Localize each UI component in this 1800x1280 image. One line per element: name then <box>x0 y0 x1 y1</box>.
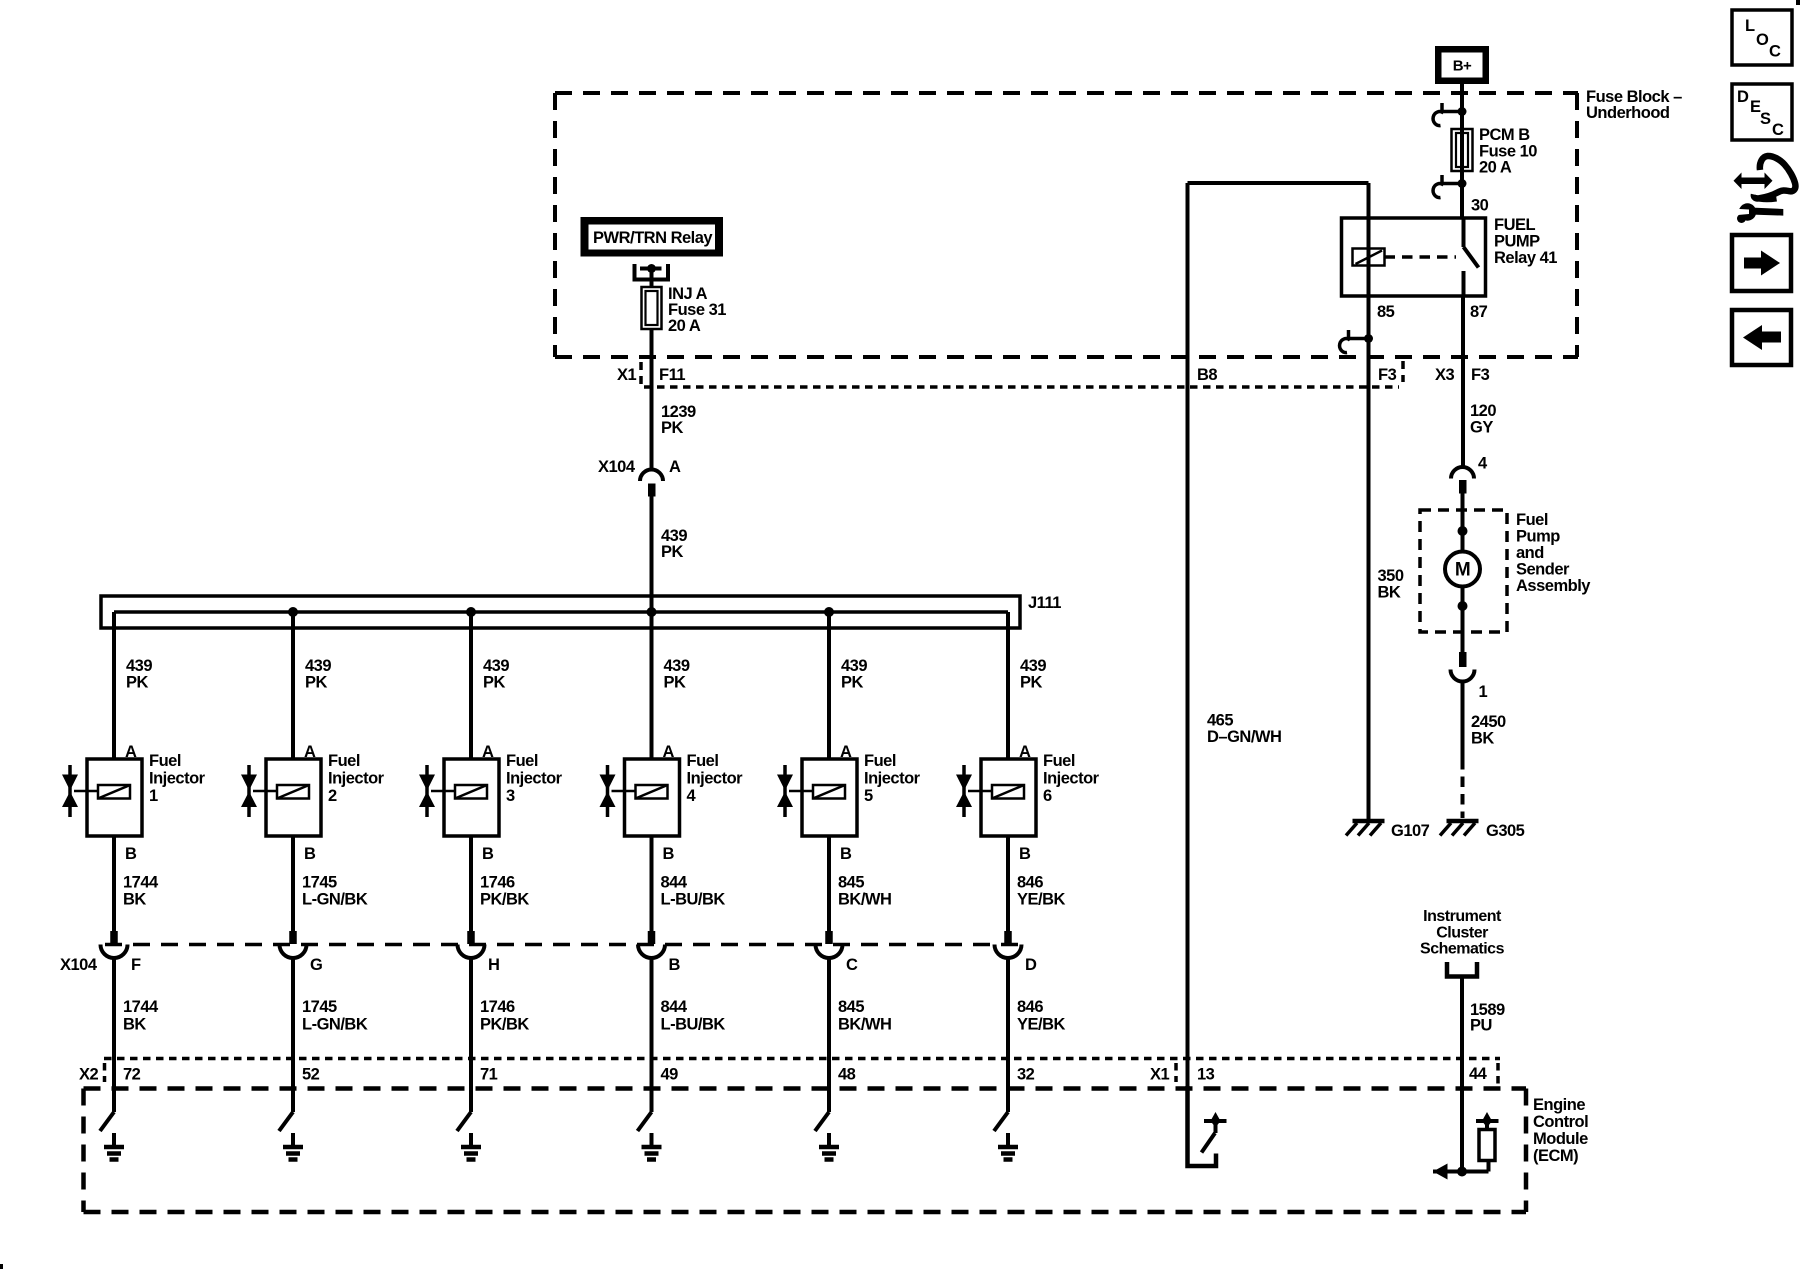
svg-text:846: 846 <box>1017 998 1043 1016</box>
svg-text:Control: Control <box>1533 1113 1588 1131</box>
svg-text:1: 1 <box>149 787 158 805</box>
svg-text:F11: F11 <box>659 366 685 384</box>
svg-text:X104: X104 <box>598 458 636 476</box>
svg-text:72: 72 <box>123 1066 141 1084</box>
svg-text:844: 844 <box>661 998 688 1016</box>
svg-text:Injector: Injector <box>328 770 385 788</box>
svg-text:B8: B8 <box>1197 366 1217 384</box>
svg-text:4: 4 <box>687 787 697 805</box>
svg-text:845: 845 <box>838 998 864 1016</box>
svg-text:4: 4 <box>1478 455 1488 473</box>
svg-text:Cluster: Cluster <box>1436 925 1488 942</box>
svg-text:439: 439 <box>305 657 331 675</box>
svg-text:X1: X1 <box>617 366 637 384</box>
svg-text:2450: 2450 <box>1471 713 1506 731</box>
svg-text:120: 120 <box>1470 402 1496 420</box>
svg-text:845: 845 <box>838 874 864 892</box>
svg-text:L: L <box>1745 17 1755 35</box>
svg-text:A: A <box>669 458 681 476</box>
svg-text:L-BU/BK: L-BU/BK <box>661 891 726 909</box>
svg-text:844: 844 <box>661 874 688 892</box>
svg-text:846: 846 <box>1017 874 1043 892</box>
svg-text:71: 71 <box>480 1066 498 1084</box>
svg-text:G: G <box>310 956 322 974</box>
svg-text:and: and <box>1516 544 1544 562</box>
svg-text:D: D <box>1025 956 1037 974</box>
svg-text:Relay 41: Relay 41 <box>1494 249 1557 267</box>
svg-text:PK: PK <box>1020 674 1043 692</box>
svg-text:Injector: Injector <box>687 770 744 788</box>
svg-text:C: C <box>1772 121 1784 139</box>
svg-text:Assembly: Assembly <box>1516 577 1591 595</box>
svg-text:44: 44 <box>1469 1065 1488 1083</box>
svg-text:J111: J111 <box>1028 594 1061 612</box>
svg-text:FUEL: FUEL <box>1494 216 1536 234</box>
svg-text:BK/WH: BK/WH <box>838 1016 891 1034</box>
svg-text:L-BU/BK: L-BU/BK <box>661 1016 726 1034</box>
svg-text:B: B <box>482 845 494 863</box>
svg-text:465: 465 <box>1207 712 1233 730</box>
svg-text:PK/BK: PK/BK <box>480 891 529 909</box>
svg-text:350: 350 <box>1378 567 1404 585</box>
svg-text:PK: PK <box>664 674 687 692</box>
svg-text:PK: PK <box>661 419 684 437</box>
svg-text:1744: 1744 <box>123 998 159 1016</box>
svg-text:1746: 1746 <box>480 874 515 892</box>
svg-text:Injector: Injector <box>1043 770 1100 788</box>
svg-text:1746: 1746 <box>480 998 515 1016</box>
svg-text:PK: PK <box>305 674 328 692</box>
svg-text:Underhood: Underhood <box>1586 104 1670 122</box>
svg-text:1744: 1744 <box>123 874 159 892</box>
svg-text:PUMP: PUMP <box>1494 233 1540 251</box>
svg-text:Injector: Injector <box>149 770 206 788</box>
svg-text:G107: G107 <box>1391 822 1430 840</box>
svg-text:B: B <box>663 845 675 863</box>
svg-text:B: B <box>840 845 852 863</box>
svg-text:PU: PU <box>1470 1017 1492 1035</box>
svg-text:Injector: Injector <box>864 770 921 788</box>
svg-text:O: O <box>1756 31 1769 49</box>
svg-text:C: C <box>1769 43 1781 61</box>
svg-text:PK: PK <box>126 674 149 692</box>
svg-text:439: 439 <box>841 657 867 675</box>
svg-text:X104: X104 <box>60 956 98 974</box>
svg-text:F: F <box>131 956 141 974</box>
svg-text:PK: PK <box>841 674 864 692</box>
svg-text:F3: F3 <box>1471 366 1490 384</box>
svg-text:Instrument: Instrument <box>1423 908 1502 925</box>
svg-text:L-GN/BK: L-GN/BK <box>302 891 368 909</box>
svg-text:Fuel: Fuel <box>864 752 896 770</box>
svg-text:B: B <box>1019 845 1031 863</box>
svg-text:85: 85 <box>1377 303 1395 321</box>
svg-text:Fuel: Fuel <box>328 752 360 770</box>
svg-text:D–GN/WH: D–GN/WH <box>1207 728 1281 746</box>
svg-text:439: 439 <box>1020 657 1046 675</box>
svg-text:Module: Module <box>1533 1130 1588 1148</box>
svg-text:32: 32 <box>1017 1066 1035 1084</box>
svg-text:439: 439 <box>126 657 152 675</box>
svg-text:BK: BK <box>123 1016 146 1034</box>
svg-text:X3: X3 <box>1435 366 1455 384</box>
svg-text:Fuel: Fuel <box>506 752 538 770</box>
svg-text:Injector: Injector <box>506 770 563 788</box>
svg-text:X2: X2 <box>79 1066 99 1084</box>
svg-text:S: S <box>1760 110 1771 128</box>
svg-text:1: 1 <box>1479 683 1488 701</box>
svg-text:Engine: Engine <box>1533 1096 1585 1114</box>
svg-text:Fuel: Fuel <box>687 752 719 770</box>
svg-text:Schematics: Schematics <box>1420 941 1505 958</box>
svg-text:B: B <box>125 845 137 863</box>
svg-text:Fuel: Fuel <box>1516 511 1548 529</box>
svg-text:GY: GY <box>1470 419 1493 437</box>
svg-text:C: C <box>846 956 858 974</box>
svg-text:G305: G305 <box>1486 822 1525 840</box>
svg-text:YE/BK: YE/BK <box>1017 891 1066 909</box>
svg-text:1745: 1745 <box>302 874 337 892</box>
svg-text:L-GN/BK: L-GN/BK <box>302 1016 368 1034</box>
svg-text:13: 13 <box>1197 1066 1215 1084</box>
svg-text:H: H <box>488 956 499 974</box>
svg-text:PWR/TRN Relay: PWR/TRN Relay <box>593 229 713 247</box>
svg-text:M: M <box>1455 560 1470 581</box>
svg-text:439: 439 <box>664 657 690 675</box>
svg-text:BK: BK <box>1471 730 1494 748</box>
svg-text:BK: BK <box>1378 584 1401 602</box>
svg-text:Fuel: Fuel <box>149 752 181 770</box>
svg-text:PK/BK: PK/BK <box>480 1016 529 1034</box>
svg-text:439: 439 <box>483 657 509 675</box>
svg-text:5: 5 <box>864 787 873 805</box>
svg-text:30: 30 <box>1471 197 1489 215</box>
svg-text:(ECM): (ECM) <box>1533 1147 1578 1165</box>
svg-text:PK: PK <box>661 543 684 561</box>
svg-text:PK: PK <box>483 674 506 692</box>
svg-text:Sender: Sender <box>1516 561 1570 579</box>
svg-text:49: 49 <box>661 1066 679 1084</box>
svg-text:YE/BK: YE/BK <box>1017 1016 1066 1034</box>
svg-text:B: B <box>304 845 316 863</box>
svg-text:X1: X1 <box>1150 1066 1170 1084</box>
svg-text:BK/WH: BK/WH <box>838 891 891 909</box>
svg-text:20 A: 20 A <box>668 317 701 335</box>
svg-text:52: 52 <box>302 1066 320 1084</box>
svg-text:87: 87 <box>1470 303 1488 321</box>
svg-text:B+: B+ <box>1453 58 1472 75</box>
svg-text:F3: F3 <box>1378 366 1397 384</box>
svg-text:2: 2 <box>328 787 337 805</box>
svg-text:D: D <box>1737 88 1749 106</box>
svg-text:PCM B: PCM B <box>1479 126 1530 144</box>
svg-text:48: 48 <box>838 1066 856 1084</box>
svg-text:B: B <box>669 956 681 974</box>
svg-text:Fuel: Fuel <box>1043 752 1075 770</box>
svg-text:1745: 1745 <box>302 998 337 1016</box>
svg-text:20 A: 20 A <box>1479 159 1512 177</box>
svg-text:BK: BK <box>123 891 146 909</box>
svg-text:Pump: Pump <box>1516 528 1560 546</box>
svg-text:3: 3 <box>506 787 515 805</box>
svg-text:6: 6 <box>1043 787 1052 805</box>
